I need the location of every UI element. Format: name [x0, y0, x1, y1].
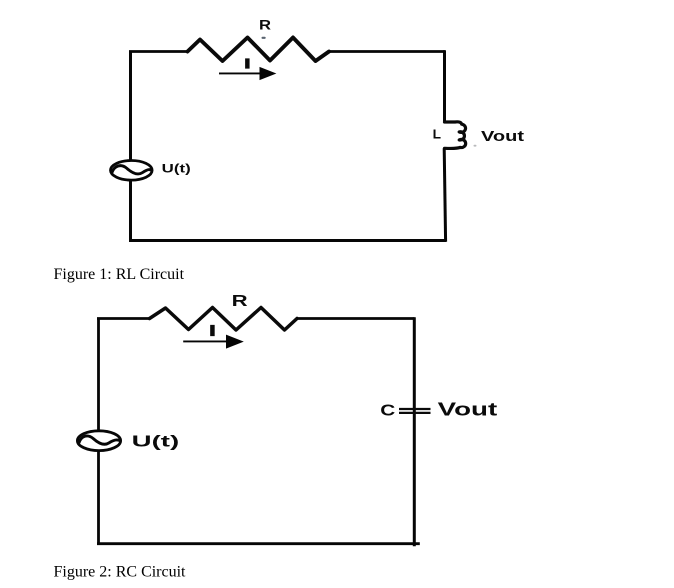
svg-text:U(t): U(t) [132, 433, 180, 450]
svg-text:Figure 1: RL Circuit: Figure 1: RL Circuit [54, 266, 185, 283]
svg-text:Vout: Vout [481, 129, 524, 145]
wire: Fig.2 bottom segment (with overshoot past right corner) [97, 542, 420, 545]
wire: Fig.1 right vertical upper segment (to inductor) [443, 50, 446, 121]
current arrow I (Fig.1) [219, 67, 276, 80]
svg-text:L: L [433, 127, 441, 142]
svg-text:C: C [380, 402, 396, 419]
wire: Fig.1 top segment, resistor R right terminal to top-right corner [329, 50, 445, 53]
wire: Fig.1 right vertical lower segment (inductor to bottom-right corner) [444, 148, 445, 242]
capacitor C (Fig.2) : two plates across the wire [399, 409, 431, 413]
wire: Fig.2 top segment, corner to resistor R left terminal [97, 317, 150, 320]
inductor L (Fig.1) [445, 122, 466, 149]
current arrow I (Fig.2) [183, 335, 244, 349]
svg-text:R: R [259, 18, 271, 33]
wire: Fig.1 top segment, corner to resistor R left terminal [129, 50, 188, 53]
resistor R (Fig.2) [150, 308, 298, 331]
svg-text:Figure 2: RC Circuit: Figure 2: RC Circuit [54, 564, 187, 581]
wire: Fig.2 right vertical (top-right corner through capacitor to bottom-right, slight overshoot) [413, 317, 416, 546]
wire: Fig.2 top segment, resistor R right terminal to top-right corner [297, 317, 415, 320]
wire: Fig.2 left vertical (top-left corner down to bottom-left corner) [97, 319, 100, 544]
stray mark near inductor L (Fig.1) [474, 145, 477, 147]
svg-text:I: I [245, 57, 250, 71]
wire: Fig.1 left vertical (node from source to top-left corner and down to bottom-left) [129, 52, 132, 241]
svg-text:U(t): U(t) [162, 161, 191, 175]
resistor R (Fig.1) [188, 38, 330, 62]
svg-text:I: I [210, 322, 216, 339]
svg-text:R: R [232, 293, 249, 310]
source U(t) (Fig.2 AC voltage source) [77, 431, 120, 451]
wire: Fig.1 bottom segment [129, 239, 446, 242]
source U(t) (Fig.1 AC voltage source) [111, 161, 153, 181]
svg-text:Vout: Vout [438, 399, 498, 419]
stray mark under label R (Fig.1) [262, 37, 266, 39]
